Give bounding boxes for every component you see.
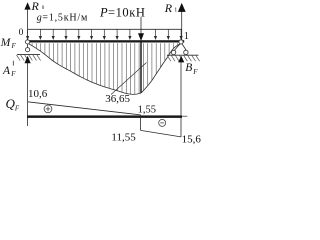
svg-text:=1,5кН/м: =1,5кН/м [42,12,88,23]
svg-text:M: M [0,37,12,49]
svg-text:R: R [164,1,173,15]
svg-text:=10кН: =10кН [108,5,145,19]
svg-text:F: F [192,68,198,76]
svg-text:F: F [11,42,17,50]
svg-text:15,6: 15,6 [182,134,202,146]
svg-text:R: R [31,0,40,13]
svg-text:0: 0 [19,28,24,38]
svg-text:10,6: 10,6 [28,88,48,100]
svg-text:A: A [2,65,11,77]
svg-text:1: 1 [174,8,177,14]
svg-text:g: g [37,12,42,23]
svg-text:F: F [14,104,20,112]
svg-text:36,65: 36,65 [105,93,130,105]
svg-text:1,55: 1,55 [138,105,156,116]
svg-text:P: P [99,5,108,19]
svg-text:1: 1 [184,31,189,42]
svg-text:B: B [185,62,192,74]
svg-text:11,55: 11,55 [111,131,136,143]
svg-text:F: F [10,70,16,78]
